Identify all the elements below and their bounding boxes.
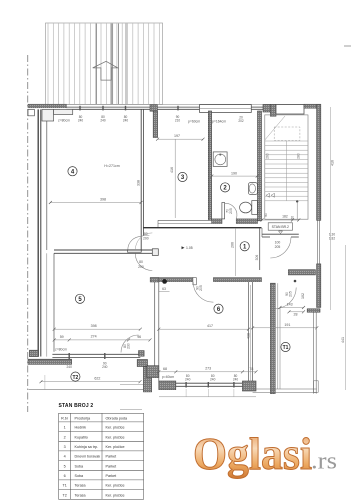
svg-text:59: 59 [60, 335, 64, 339]
svg-text:Parket: Parket [106, 455, 117, 459]
svg-text:80: 80 [139, 260, 143, 264]
svg-text:STAN BR.2: STAN BR.2 [272, 225, 289, 229]
svg-text:100: 100 [275, 241, 281, 245]
svg-text:p=164cm: p=164cm [212, 120, 226, 124]
svg-text:Ker. pločice: Ker. pločice [106, 484, 125, 488]
svg-text:96: 96 [137, 335, 141, 339]
svg-text:.rs: .rs [311, 449, 337, 475]
svg-text:Terasa: Terasa [75, 484, 87, 488]
svg-text:274: 274 [91, 334, 97, 338]
svg-text:p=60cm: p=60cm [188, 120, 200, 124]
svg-text:Kupatilo: Kupatilo [75, 435, 88, 439]
svg-text:2: 2 [64, 435, 66, 439]
svg-text:240: 240 [67, 365, 73, 369]
svg-text:240: 240 [185, 378, 191, 382]
svg-text:182: 182 [282, 215, 288, 219]
svg-text:200: 200 [143, 236, 149, 240]
svg-text:143: 143 [287, 303, 293, 307]
svg-text:205: 205 [275, 245, 281, 249]
svg-text:200: 200 [138, 265, 144, 269]
svg-text:90: 90 [264, 213, 268, 217]
svg-text:Soba: Soba [75, 464, 85, 468]
svg-text:Prostorija: Prostorija [75, 416, 92, 420]
svg-text:R.br: R.br [61, 416, 69, 420]
svg-text:230: 230 [127, 343, 131, 349]
svg-text:102: 102 [301, 293, 305, 299]
svg-text:197: 197 [174, 134, 180, 138]
svg-text:190: 190 [231, 171, 237, 175]
svg-text:1.05: 1.05 [186, 246, 193, 250]
svg-text:280: 280 [297, 153, 301, 159]
svg-text:Ker. pločice: Ker. pločice [106, 445, 125, 449]
svg-text:z=80cm: z=80cm [55, 348, 67, 352]
svg-text:205: 205 [199, 285, 203, 291]
svg-text:z=80cm: z=80cm [58, 119, 70, 123]
svg-text:240: 240 [123, 118, 129, 122]
svg-text:260: 260 [266, 153, 270, 159]
svg-text:Kuhinja sa trp.: Kuhinja sa trp. [75, 445, 99, 449]
svg-text:T1: T1 [62, 484, 66, 488]
svg-text:416: 416 [170, 167, 174, 173]
svg-text:417: 417 [207, 324, 213, 328]
svg-text:240: 240 [78, 118, 84, 122]
svg-text:438: 438 [247, 333, 251, 339]
svg-text:191: 191 [284, 323, 290, 327]
svg-text:240: 240 [210, 378, 216, 382]
svg-text:H=271cm: H=271cm [104, 164, 119, 168]
svg-text:Ker. pločice: Ker. pločice [106, 435, 125, 439]
svg-text:441: 441 [341, 337, 345, 343]
svg-text:398: 398 [91, 324, 97, 328]
svg-text:273: 273 [205, 366, 211, 370]
svg-text:240: 240 [233, 378, 239, 382]
svg-text:Ker. pločice: Ker. pločice [106, 493, 125, 497]
svg-text:p=60cm: p=60cm [162, 375, 174, 379]
svg-text:Obrada poda: Obrada poda [106, 416, 128, 420]
svg-text:210: 210 [175, 118, 181, 122]
svg-text:5: 5 [64, 464, 66, 468]
svg-text:1.82: 1.82 [329, 236, 335, 240]
svg-text:6: 6 [64, 474, 66, 478]
svg-text:28: 28 [294, 313, 298, 317]
svg-text:T1: T1 [283, 345, 289, 351]
svg-text:338: 338 [137, 180, 141, 186]
svg-text:Parket: Parket [106, 474, 117, 478]
svg-text:Parket: Parket [106, 464, 117, 468]
svg-text:STAN BROJ 2: STAN BROJ 2 [59, 403, 94, 409]
svg-text:240: 240 [100, 118, 106, 122]
svg-text:Hodnik: Hodnik [75, 426, 87, 430]
svg-text:78: 78 [249, 367, 253, 371]
svg-text:398: 398 [100, 198, 106, 202]
svg-text:202: 202 [238, 119, 244, 123]
svg-text:Terasa: Terasa [75, 493, 87, 497]
svg-text:Dnevni boravak: Dnevni boravak [75, 455, 101, 459]
svg-text:205: 205 [229, 208, 233, 214]
svg-text:206: 206 [231, 242, 235, 248]
svg-text:Ker. pločice: Ker. pločice [106, 426, 125, 430]
svg-text:T2: T2 [72, 375, 78, 381]
svg-text:306: 306 [255, 255, 259, 261]
svg-text:Soba: Soba [75, 474, 85, 478]
svg-text:68: 68 [163, 367, 167, 371]
svg-text:240: 240 [102, 365, 108, 369]
svg-text:63: 63 [162, 287, 166, 291]
svg-text:T2: T2 [62, 493, 66, 497]
svg-text:622: 622 [94, 377, 100, 381]
svg-text:205: 205 [289, 291, 293, 297]
svg-text:416: 416 [331, 160, 335, 166]
svg-text:1: 1 [64, 426, 66, 430]
svg-text:4: 4 [64, 455, 66, 459]
svg-text:Oglasi: Oglasi [193, 428, 312, 479]
svg-text:3: 3 [64, 445, 66, 449]
